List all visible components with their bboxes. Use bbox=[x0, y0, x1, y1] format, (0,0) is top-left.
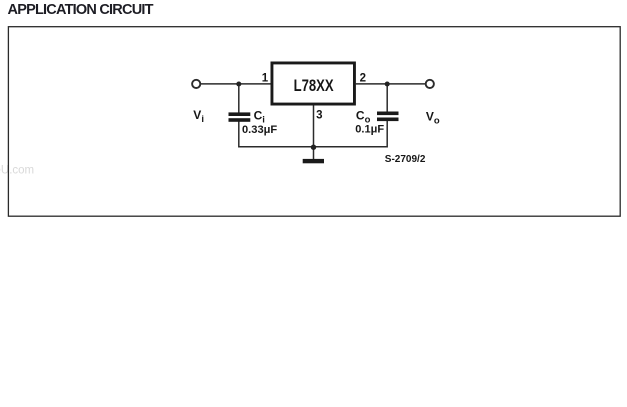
svg-text:3: 3 bbox=[316, 110, 322, 122]
svg-text:Ci: Ci bbox=[254, 108, 265, 125]
svg-text:L78XX: L78XX bbox=[294, 76, 334, 95]
svg-text:eU.com: eU.com bbox=[0, 165, 34, 177]
svg-text:0.33μF: 0.33μF bbox=[242, 124, 277, 136]
svg-text:1: 1 bbox=[262, 73, 269, 85]
svg-text:S-2709/2: S-2709/2 bbox=[385, 154, 426, 165]
svg-text:0.1μF: 0.1μF bbox=[355, 124, 384, 136]
svg-text:Vi: Vi bbox=[193, 108, 204, 125]
svg-text:2: 2 bbox=[360, 73, 366, 85]
svg-text:Vo: Vo bbox=[426, 109, 440, 126]
